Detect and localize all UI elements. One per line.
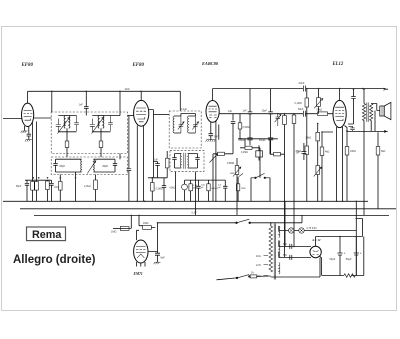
svg-text:500pF: 500pF: [259, 140, 266, 142]
capacitor 1nF: [248, 112, 253, 114]
V2 grid wire from B1: [128, 115, 134, 117]
cathode resistor wires: [346, 131, 348, 202]
tuning arrow T1b: [92, 118, 104, 134]
mains fuse 2A: [250, 275, 257, 278]
svg-text:10nF: 10nF: [54, 187, 60, 189]
T1b wires: [92, 116, 110, 132]
resistor 1M a: [120, 227, 129, 231]
resistor 2.2k: [94, 180, 98, 190]
grid stopper resistor 50k: [318, 112, 328, 116]
coil L2a: [80, 159, 83, 172]
wire V2 anode to B3: [154, 113, 170, 115]
svg-text:10nF: 10nF: [125, 89, 131, 91]
V2 anode wire to rail: [149, 110, 154, 178]
wire HT to rectifier top: [279, 241, 311, 247]
speaker cone: [384, 102, 391, 119]
svg-text:+: +: [344, 252, 346, 256]
svg-text:5nF: 5nF: [283, 254, 288, 257]
R3 wires: [59, 175, 61, 202]
screen bypass cap wire: [348, 89, 354, 124]
tone pot upper arrow: [314, 99, 323, 109]
IF transformer box B3 (dashed): [169, 111, 201, 148]
resistor det 2 wires: [213, 153, 233, 155]
V4 heater pins: [337, 127, 343, 201]
svg-text:0,3MΩ: 0,3MΩ: [156, 187, 163, 190]
svg-text:μF: μF: [218, 187, 221, 189]
resistor 1M b: [143, 226, 152, 230]
resistor 0.5M vertical: [238, 123, 242, 129]
Rema logo box: [27, 227, 66, 241]
resistor R1: [31, 181, 35, 190]
resistor 0.1M wires: [306, 89, 308, 114]
rectifier AZ12 envelope: [310, 246, 321, 257]
resistor AVC 2 wires: [293, 114, 295, 216]
wire HT to rectifier bottom: [279, 252, 311, 258]
triode V1 envelope: [22, 103, 34, 126]
svg-text:EF80: EF80: [132, 63, 145, 68]
primary feed wires: [363, 89, 365, 215]
capacitor 50pF: [25, 180, 29, 201]
wire magic eye feed 2: [138, 215, 140, 225]
capacitor below V1 cathode: [27, 134, 31, 139]
capacitor 1nF top feed: [84, 91, 89, 115]
capacitor T1b right: [108, 116, 113, 132]
svg-text:80pF: 80pF: [60, 165, 66, 168]
capacitor 80pF right: [113, 159, 117, 172]
resistor T1b wires: [100, 132, 102, 157]
R3a wires: [46, 180, 48, 201]
secondary winding HT: [279, 241, 280, 258]
magic eye V5 envelope: [134, 240, 148, 263]
trimmer capacitor T1b: [90, 119, 95, 132]
wire AF plate line: [213, 88, 386, 90]
wire ground return bottom: [271, 237, 364, 278]
V1 long drop b: [36, 122, 38, 182]
svg-text:0,5MΩ: 0,5MΩ: [227, 162, 234, 165]
V5 pins: [137, 262, 145, 267]
svg-text:0,1μF: 0,1μF: [181, 109, 188, 111]
secondary winding rectifier filament: [279, 263, 280, 275]
svg-text:1nF: 1nF: [243, 109, 248, 112]
wire voltage selector mains: [217, 278, 237, 280]
B4 drops to bus: [176, 172, 196, 216]
V3 heater pin rail: [215, 121, 217, 202]
screen bypass capacitor: [351, 97, 356, 99]
resistor 0.15M: [189, 184, 192, 191]
wire detector row: [238, 138, 278, 140]
capacitor 5nF a: [290, 244, 292, 249]
svg-text:220v: 220v: [256, 275, 262, 278]
coil L2b: [93, 159, 96, 172]
resistor T1a bottom: [65, 141, 69, 148]
resistor AVC 1 wires: [284, 114, 286, 258]
svg-text:5nF: 5nF: [214, 136, 219, 139]
resistor 0.1M wires: [240, 139, 260, 178]
V2 heater pins: [137, 126, 143, 202]
svg-text:EF80: EF80: [21, 63, 34, 68]
tone pot wire: [317, 175, 319, 202]
svg-text:0,1MΩ: 0,1MΩ: [241, 152, 248, 154]
lamp 2 cross: [300, 229, 304, 233]
tank T3b wires: [181, 114, 196, 134]
svg-text:+: +: [360, 252, 362, 256]
tuning arrow L2: [87, 161, 96, 174]
capacitor B4 right: [195, 154, 199, 169]
wire B1 right feed: [111, 91, 121, 115]
V3 internal electrodes: [209, 106, 217, 117]
output transformer secondary coil: [370, 104, 373, 121]
resistor 0.15M wires: [190, 180, 192, 201]
resistor 30k: [305, 146, 309, 155]
svg-text:50kΩ: 50kΩ: [317, 109, 323, 112]
secondary wires to speaker: [371, 104, 380, 132]
AVC rail from grid: [128, 116, 130, 202]
B4 link wires: [175, 154, 198, 169]
diode load drop a: [249, 89, 251, 146]
capacitor 8nF eye: [155, 253, 160, 262]
svg-text:50pF: 50pF: [16, 186, 22, 188]
AZ12 internals: [312, 250, 318, 255]
output transformer core: [367, 103, 368, 122]
capacitor 1nF: [162, 178, 166, 202]
switch on AF: [251, 173, 270, 177]
screen cap 2nd IF: [154, 162, 160, 178]
svg-text:80pF: 80pF: [103, 165, 109, 168]
V2 internal electrodes: [136, 108, 146, 122]
capacitor 10pF: [268, 112, 273, 114]
wire V3 grid network: [219, 113, 333, 115]
wire B+ rail right: [355, 201, 357, 275]
wire V3 diode pin: [218, 125, 220, 140]
svg-text:6,3V: 6,3V: [192, 211, 197, 214]
output transformer primary coil: [362, 104, 365, 121]
triple-diode-triode V3 envelope: [206, 101, 219, 123]
IF coil T1a twin b: [69, 116, 70, 129]
tuning arrow T1a: [58, 118, 70, 134]
svg-text:1μF: 1μF: [228, 111, 233, 113]
wire lamp row: [279, 226, 357, 231]
jack wires: [184, 180, 186, 201]
svg-text:50μF: 50μF: [346, 258, 352, 261]
capacitor 80pF left: [53, 159, 57, 172]
ground chassis V1 cathode: [25, 140, 32, 142]
boxed component (relay/label plate): [256, 151, 263, 157]
coil L4a: [179, 154, 182, 168]
capacitor 0.5uF: [223, 180, 227, 201]
resistor R3: [59, 181, 63, 190]
selector switch lever: [237, 275, 249, 278]
svg-text:0,1MΩ: 0,1MΩ: [295, 102, 302, 105]
selector contact dots: [236, 277, 238, 279]
capacitor 1nF tone: [301, 143, 306, 160]
V1 internal electrodes: [24, 111, 33, 121]
wire B+ feed corner: [356, 219, 362, 237]
core B4: [184, 153, 185, 169]
heater rail drop b: [293, 215, 295, 246]
cathode resistor EL12: [345, 147, 349, 156]
wire rectifier cathode up: [315, 237, 317, 247]
capacitor 50nF series: [304, 111, 306, 117]
V3 anode wire to AF line: [212, 89, 214, 101]
AVC rail capacitor: [127, 169, 132, 171]
V1 long drop a: [32, 123, 34, 182]
svg-text:EM71: EM71: [133, 272, 143, 276]
ground chassis V3: [206, 140, 216, 142]
resistor T1b bottom: [99, 141, 103, 148]
IF transformer box B1 (dashed): [51, 112, 127, 154]
svg-text:Rema: Rema: [32, 229, 62, 241]
resistor 0.3M wires: [148, 178, 167, 202]
V4 cathode wire: [345, 126, 348, 132]
wire eye cap link: [148, 223, 158, 253]
speaker magnet: [380, 106, 384, 116]
filter capacitor 50uF b: [354, 237, 359, 276]
filter resistor zigzag: [344, 274, 355, 278]
svg-text:Allegro (droite): Allegro (droite): [13, 254, 96, 266]
screen resistor: [320, 147, 324, 156]
filter capacitor 50uF a: [337, 237, 342, 276]
resistor 0.1M det: [207, 184, 210, 191]
coil L3b: [187, 116, 190, 133]
resistor 20k wires: [317, 124, 319, 166]
primary top wire: [270, 223, 272, 226]
primary taps: [264, 256, 269, 276]
capacitor 1uF det: [231, 114, 236, 154]
svg-text:1nF: 1nF: [154, 159, 159, 161]
resistor 30k wires: [306, 114, 308, 202]
V1 heater pins: [25, 126, 29, 134]
svg-text:127v: 127v: [256, 264, 262, 267]
lamp 1 cross: [289, 229, 293, 233]
trimmer capacitor C3b: [192, 116, 198, 133]
svg-text:2,2kΩ: 2,2kΩ: [84, 185, 91, 188]
wire det pot drop: [212, 154, 214, 202]
svg-text:EL12: EL12: [332, 62, 344, 67]
svg-text:10pF: 10pF: [262, 109, 268, 112]
R2 wires: [36, 190, 38, 201]
resistor 0.1M det wires: [185, 180, 226, 201]
svg-text:4kΩ: 4kΩ: [325, 151, 330, 154]
coupling capacitor 20nF: [304, 86, 306, 92]
mains transformer core: [274, 224, 276, 280]
wire switch drop: [251, 178, 270, 202]
det pot arrow: [210, 154, 218, 163]
resistor 0.1M horizontal: [245, 146, 252, 149]
svg-text:500pF: 500pF: [239, 140, 246, 142]
svg-text:1nF: 1nF: [79, 104, 84, 107]
trimmer capacitor T1a: [56, 119, 61, 132]
wire A end arrow: [384, 88, 389, 90]
ground chassis eye: [154, 262, 161, 264]
wire B2 bottom drop: [75, 172, 77, 201]
svg-text:110v: 110v: [256, 255, 262, 258]
capacitor B4 left: [172, 154, 176, 169]
svg-text:5kΩ: 5kΩ: [381, 150, 386, 153]
IF coil T1a twin: [64, 116, 65, 129]
resistor T1a wires: [66, 132, 68, 157]
resistor 50k wires: [270, 139, 285, 154]
tone pot arrow: [314, 167, 322, 177]
diode load drop b: [270, 89, 272, 155]
resistor 0.3M: [151, 183, 155, 192]
dial lamp 1: [289, 228, 294, 233]
svg-text:1MΩ: 1MΩ: [241, 188, 246, 190]
bus wire L3: [34, 214, 389, 216]
resistor 20k: [316, 132, 320, 141]
wire B1 left edge feed: [51, 91, 53, 112]
coil L3a: [172, 116, 175, 133]
resistor 1M b wires: [139, 226, 155, 228]
volume pot wires: [236, 158, 238, 215]
svg-text:4,5kΩ: 4,5kΩ: [169, 188, 175, 190]
wire fuse to transformer: [257, 275, 271, 277]
secondary winding heater: [279, 226, 280, 238]
tank T3a wires: [174, 116, 181, 133]
wire top rail V1 to V2 to B3: [28, 91, 181, 111]
capacitor 500pF b: [268, 138, 273, 140]
V2 anode wire: [140, 91, 142, 100]
svg-text:30kΩ: 30kΩ: [296, 150, 302, 153]
wire B1 to B2 drop: [119, 154, 121, 160]
capacitor T1a right: [74, 116, 79, 132]
capacitor 5nF b: [290, 255, 292, 260]
wire mains switch line: [158, 215, 303, 222]
svg-text:0,5MΩ: 0,5MΩ: [243, 127, 250, 129]
svg-text:8nF: 8nF: [161, 257, 166, 260]
V3 cathode capacitor 5nF: [209, 122, 214, 140]
resistor 1M a wire: [113, 227, 120, 229]
mains switch lever: [237, 219, 250, 223]
wire AVC node row: [25, 179, 52, 181]
svg-text:20kΩ: 20kΩ: [306, 136, 312, 139]
svg-text:1MΩ: 1MΩ: [230, 173, 235, 175]
volume potentiometer: [235, 166, 239, 175]
V5 internal electrodes: [136, 247, 146, 259]
svg-text:2A: 2A: [251, 272, 254, 275]
speaker coil line: [381, 106, 383, 116]
screen resistor wires: [166, 151, 168, 178]
trimmer capacitor det: [275, 114, 281, 126]
IF transformer box B4 (dashed): [170, 150, 204, 171]
capacitor 10nF: [49, 180, 53, 201]
pentode V2 envelope: [134, 100, 149, 126]
resistor 1M det wires: [237, 177, 239, 201]
B2 link wires: [56, 159, 116, 172]
bus wire L1 (heater/ground rail): [3, 200, 368, 202]
resistor AVC 2: [292, 115, 296, 124]
IF coil T1b twin: [98, 116, 99, 129]
svg-text:160Ω: 160Ω: [350, 150, 356, 153]
wire eye grid: [137, 230, 140, 240]
jack socket: [182, 184, 188, 190]
resistor AVC 1: [283, 116, 287, 125]
svg-text:pF: pF: [201, 187, 204, 189]
feedback resistor wires: [377, 132, 379, 209]
V1 anode wire to top rail: [27, 91, 29, 103]
svg-text:1MΩ: 1MΩ: [143, 222, 148, 225]
svg-text:50nF: 50nF: [298, 108, 304, 111]
V4 internal electrodes: [335, 107, 344, 120]
resistor 50k horizontal: [274, 152, 281, 156]
resistor R3a: [46, 181, 50, 190]
resistor 1M det: [236, 184, 239, 191]
V4 anode wire: [339, 89, 341, 101]
V1 grid side wire: [34, 117, 52, 119]
trimmer capacitor C3a: [178, 116, 184, 133]
R1 wires: [32, 190, 34, 201]
V4 cathode bypass capacitor: [349, 126, 355, 131]
tone potentiometer lower: [316, 166, 320, 175]
svg-text:EABC80: EABC80: [201, 61, 219, 66]
resistor R2: [35, 181, 39, 190]
T1a wires: [58, 116, 76, 132]
capacitor 500pF a: [247, 138, 252, 140]
bus wire L2: [20, 208, 396, 210]
switch contacts: [255, 177, 256, 178]
svg-text:20nF: 20nF: [299, 81, 305, 85]
output pentode V4 envelope: [333, 100, 346, 127]
volume pot arrow: [233, 167, 241, 177]
resistor det 2 horizontal: [218, 152, 225, 155]
mains transformer primary winding: [269, 226, 273, 272]
capacitor 100pF: [196, 180, 200, 201]
svg-text:1MΩ: 1MΩ: [111, 231, 116, 234]
wire filter top: [316, 236, 363, 238]
tone pot upper: [317, 98, 321, 107]
wire antenna input: [3, 118, 22, 120]
tone pot upper wires: [318, 89, 320, 114]
wire rectifier filament down: [320, 256, 322, 275]
IF transformer box B2 (dashed): [51, 157, 127, 175]
coil L4b: [187, 154, 190, 168]
svg-text:0,75 0,54: 0,75 0,54: [307, 227, 318, 230]
resistor 0.5M wires: [239, 114, 241, 139]
svg-text:50μF: 50μF: [330, 258, 336, 261]
resistor 2.2k wires: [95, 175, 97, 202]
switch contact dots: [236, 222, 238, 224]
ground chassis V1: [21, 131, 28, 133]
dial lamp 2: [299, 228, 304, 233]
wire output bottom with arrow: [347, 130, 388, 132]
wire magic eye feed 1: [120, 215, 131, 228]
screen resistor wires: [322, 132, 333, 201]
resistor 0.1M grid leak: [305, 98, 309, 107]
AF switch upper: [239, 174, 244, 177]
feedback resistor: [376, 147, 380, 156]
IF coil T1b twin b: [103, 116, 104, 129]
screen resistor 2nd IF: [166, 158, 170, 168]
heater rail drop a: [284, 201, 286, 246]
boxed component wires: [258, 145, 260, 160]
